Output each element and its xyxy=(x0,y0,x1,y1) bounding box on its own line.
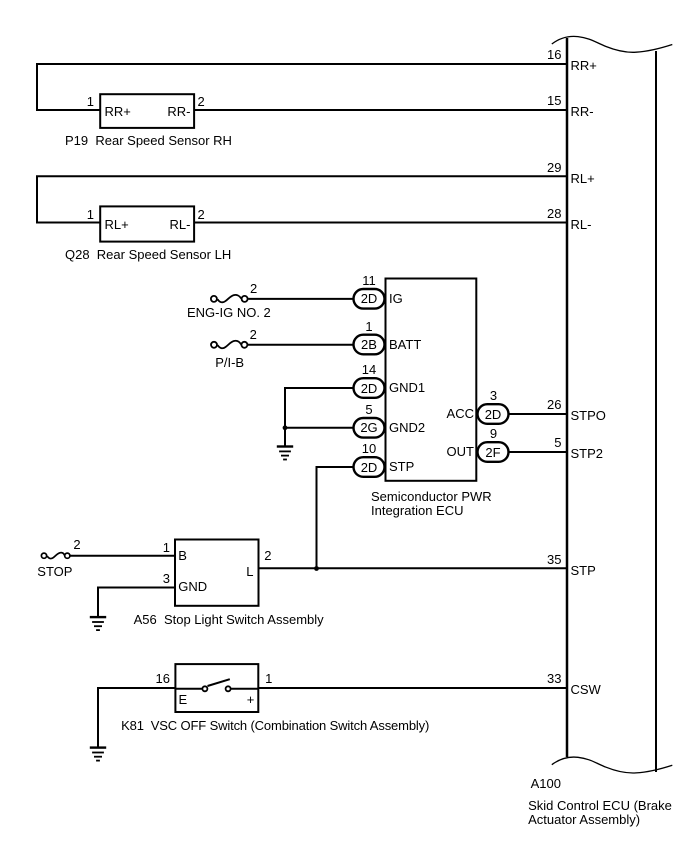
terminal L xyxy=(224,564,254,579)
bus A100 right line xyxy=(655,51,657,772)
wire Q28 top RL+ to pin 29 xyxy=(37,176,566,222)
caption A100 line 1 xyxy=(528,798,672,813)
pin name IG xyxy=(389,291,403,306)
bus bottom torn edge xyxy=(552,757,673,773)
wire K81 pin 16 to ground xyxy=(98,688,175,748)
connector box Q28 xyxy=(100,206,194,241)
wire P19 pin1 xyxy=(36,109,101,111)
wire IG xyxy=(248,298,353,300)
wire STP (ECU) down to STP net xyxy=(317,467,354,569)
terminal E xyxy=(179,692,188,707)
label fuse 2 (ENG-IG) xyxy=(250,281,257,296)
junction GND1/GND2 xyxy=(283,425,288,430)
label pin 11 xyxy=(339,273,399,288)
caption A100 xyxy=(531,776,561,791)
net RL+ xyxy=(571,171,595,186)
connector oval 2D IG xyxy=(354,289,385,309)
bus A100 left line xyxy=(566,38,569,757)
connector oval 2B BATT xyxy=(354,335,385,355)
terminal GND xyxy=(178,579,207,594)
label pin 14 xyxy=(339,362,399,377)
label pin 28 xyxy=(502,206,562,221)
net RR- xyxy=(571,104,594,119)
wire Q28 pin1 xyxy=(36,222,101,224)
connector oval 2F OUT xyxy=(478,442,509,462)
net STP xyxy=(571,563,596,578)
connector box K81 VSC OFF switch xyxy=(175,664,258,712)
wire K81 internal pin 16 stub xyxy=(175,688,202,690)
connector oval 2D GND1 xyxy=(354,378,385,398)
bus top torn edge xyxy=(552,36,673,52)
ground (ECU GND) xyxy=(277,445,293,460)
terminal RR- xyxy=(130,104,191,119)
label A56 pin 2 xyxy=(264,548,271,563)
oval text 2G xyxy=(354,420,385,435)
wire K81 internal pin 1 stub xyxy=(231,688,258,690)
oval text 2D GND1 xyxy=(354,381,385,396)
label fuse 2 (P/I-B) xyxy=(250,327,257,342)
label pin 16 xyxy=(502,47,562,62)
wire OUT to pin 5 STP2 xyxy=(508,451,566,453)
connector oval 2D ACC xyxy=(478,404,509,424)
label pin 29 xyxy=(502,160,562,175)
wire GND1 xyxy=(285,388,354,428)
fuse ENG-IG NO. 2 xyxy=(211,295,248,302)
connector box A56 stop light switch xyxy=(175,540,259,606)
wire to ground xyxy=(284,428,286,447)
label pin 35 xyxy=(502,552,562,567)
ground (K81) xyxy=(90,746,106,761)
net RL- xyxy=(571,217,592,232)
label A56 pin 1 xyxy=(140,540,170,555)
label A56 pin 3 xyxy=(140,571,170,586)
terminal RR+ xyxy=(105,104,131,119)
connector box P19 xyxy=(100,94,194,128)
label Q28 pin 2 xyxy=(198,207,205,222)
fuse P/I-B xyxy=(211,341,247,348)
terminal B xyxy=(178,548,187,563)
wire BATT xyxy=(248,344,354,346)
caption Q28 xyxy=(65,247,231,262)
label pin 26 xyxy=(502,397,562,412)
pigtail STOP xyxy=(41,553,70,559)
switch contacts K81 xyxy=(202,686,230,691)
caption ECU line 1 xyxy=(371,489,492,504)
wire ACC to pin 26 STPO xyxy=(508,413,566,415)
caption ENG-IG NO. 2 xyxy=(187,305,271,320)
label pin 10 xyxy=(339,441,399,456)
wire P19 pin2 RR- to pin 15 xyxy=(194,109,567,111)
label pin 5 xyxy=(502,435,562,450)
caption ECU line 2 xyxy=(371,503,464,518)
connector oval 2G GND2 xyxy=(354,418,385,438)
wire STOP to pin B xyxy=(70,555,175,557)
label pin 5 GND2 xyxy=(339,402,399,417)
terminal + xyxy=(247,692,255,707)
pin name GND2 xyxy=(389,420,425,435)
wire GND2 xyxy=(285,427,354,429)
label pin 9 xyxy=(464,426,524,441)
caption P/I-B xyxy=(215,355,244,370)
label pin 1 BATT xyxy=(339,319,399,334)
terminal RL+ xyxy=(105,217,129,232)
caption P19 xyxy=(65,133,232,148)
label K81 pin 1 xyxy=(265,671,272,686)
ground (A56) xyxy=(90,616,106,631)
net RR+ xyxy=(571,58,597,73)
oval text 2D ACC xyxy=(478,407,509,422)
wire Q28 pin2 RL- to pin 28 xyxy=(194,222,567,224)
switch lever K81 xyxy=(208,679,230,686)
label P19 pin 1 xyxy=(64,94,94,109)
caption A56 xyxy=(134,612,324,627)
pin name GND1 xyxy=(389,380,425,395)
pin name OUT xyxy=(414,444,474,459)
oval text 2B xyxy=(354,337,385,352)
junction STP xyxy=(314,566,319,571)
label pin 33 xyxy=(502,671,562,686)
label P19 pin 2 xyxy=(198,94,205,109)
caption A100 line 2 xyxy=(528,812,640,827)
oval text 2D STP xyxy=(354,460,385,475)
label pin 3 xyxy=(464,388,524,403)
label pin 15 xyxy=(502,93,562,108)
wire A56 GND pin 3 xyxy=(98,588,175,618)
caption K81 xyxy=(121,718,429,733)
oval text 2F OUT xyxy=(478,445,509,460)
net CSW xyxy=(571,682,601,697)
oval text 2D IG xyxy=(354,291,385,306)
connector oval 2D STP xyxy=(354,457,385,477)
net STP2 xyxy=(571,446,604,461)
caption STOP xyxy=(37,564,72,579)
terminal RL- xyxy=(130,217,191,232)
pin name ACC xyxy=(414,406,474,421)
pin name BATT xyxy=(389,337,421,352)
wire K81 pin 1 to pin 33 CSW xyxy=(258,687,566,689)
wire A56 pin L to pin 35 STP xyxy=(259,567,567,569)
net STPO xyxy=(571,408,606,423)
label STOP pigtail 2 xyxy=(73,537,80,552)
label K81 pin 16 xyxy=(140,671,170,686)
wire P19 top RR+ to pin 16 xyxy=(37,64,566,110)
ECU box U1 Semiconductor PWR Integration ECU xyxy=(386,279,477,481)
label Q28 pin 1 xyxy=(64,207,94,222)
pin name STP xyxy=(389,459,414,474)
